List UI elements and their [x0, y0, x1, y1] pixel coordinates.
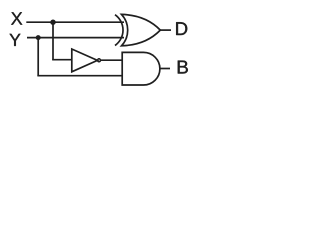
wire inverter output to AND [101, 59, 123, 61]
xor gate U1 body [122, 14, 161, 45]
node Y label [10, 34, 21, 46]
wire Y input [27, 37, 124, 39]
junction X dot [50, 20, 55, 25]
wire XOR output D [160, 29, 171, 31]
wire X branch vertical [52, 22, 54, 60]
node X label [11, 12, 22, 24]
xor gate U1 input arc [115, 15, 123, 46]
inverter U2 bubble [98, 59, 101, 62]
and gate U3 body [122, 52, 160, 85]
wire AND output B [160, 68, 170, 70]
wire Y branch vertical [37, 38, 39, 76]
wire Y branch bottom to AND [37, 75, 122, 77]
node B label [178, 61, 188, 74]
junction Y dot [36, 35, 41, 40]
wire X branch to inverter [52, 59, 72, 61]
background [0, 0, 197, 93]
node D label [176, 22, 187, 35]
wire X input [26, 21, 124, 23]
inverter U2 triangle [72, 49, 98, 72]
